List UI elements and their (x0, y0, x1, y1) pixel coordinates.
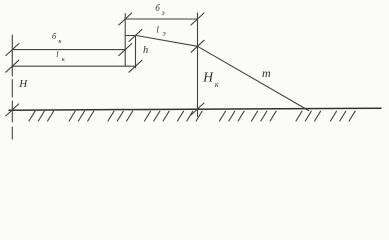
svg-text:h: h (143, 45, 148, 56)
svg-text:э: э (163, 29, 166, 37)
svg-text:H: H (202, 70, 214, 85)
svg-text:к: к (215, 80, 219, 89)
svg-text:э: э (162, 9, 165, 17)
svg-text:m: m (262, 66, 271, 80)
svg-text:H: H (18, 78, 28, 90)
svg-text:б: б (155, 3, 160, 13)
